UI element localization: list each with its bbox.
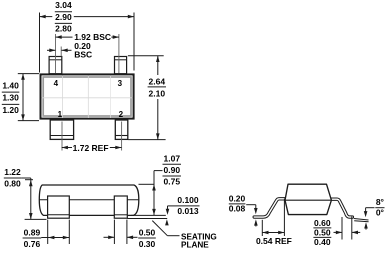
svg-text:8°: 8° <box>376 197 385 207</box>
dimension 0.60/0.50/0.40 foot length <box>341 217 343 240</box>
svg-text:0.90: 0.90 <box>164 165 181 175</box>
top view lead tab (pin 4 side) <box>49 57 62 74</box>
svg-text:0.08: 0.08 <box>229 204 246 214</box>
dimension 1.92 BSC lead pitch <box>56 36 73 38</box>
side view package body <box>39 185 139 215</box>
top view package body outline <box>41 74 134 118</box>
svg-text:2.90: 2.90 <box>55 12 72 22</box>
seating plane label <box>152 221 167 236</box>
svg-text:4: 4 <box>54 79 59 88</box>
svg-text:0.76: 0.76 <box>24 239 41 249</box>
top view lead tab (pin 3 side) <box>115 57 127 74</box>
svg-text:0.50: 0.50 <box>139 228 156 238</box>
svg-text:0.013: 0.013 <box>177 206 199 216</box>
dimension 0.89/0.76 wide lead width <box>47 220 49 244</box>
svg-text:1.72 REF: 1.72 REF <box>73 143 109 153</box>
svg-text:1: 1 <box>58 110 63 119</box>
svg-text:2.80: 2.80 <box>55 24 72 34</box>
svg-text:2: 2 <box>119 110 124 119</box>
dimension 0.50/0.30 lead width <box>113 220 115 244</box>
svg-text:1.20: 1.20 <box>2 105 19 115</box>
svg-text:0.30: 0.30 <box>139 239 156 249</box>
svg-text:1.30: 1.30 <box>2 93 19 103</box>
svg-text:0.75: 0.75 <box>164 176 181 186</box>
dimension 3.04/2.90/2.80 body width <box>39 13 41 73</box>
top view interior construction lines <box>42 97 133 99</box>
svg-text:0°: 0° <box>376 207 385 217</box>
side view lead tab right (pin 2) <box>114 196 127 218</box>
svg-text:0.80: 0.80 <box>4 178 21 188</box>
svg-text:1.22: 1.22 <box>4 167 21 177</box>
offset line 0.20 BSC ref <box>60 47 62 57</box>
top view lead tab (pin 1, wide) <box>50 120 73 139</box>
svg-text:3.04: 3.04 <box>55 0 72 10</box>
centerline pin1 tab ext <box>61 122 63 151</box>
svg-text:BSC: BSC <box>74 49 92 59</box>
dimension 0.20 BSC <box>47 49 56 51</box>
centerline pin2 tab ext <box>121 122 123 151</box>
centerline pin3 tab <box>118 34 120 73</box>
svg-text:1.07: 1.07 <box>164 153 181 163</box>
svg-text:3: 3 <box>118 79 123 88</box>
svg-text:2.64: 2.64 <box>149 77 166 87</box>
svg-text:0.89: 0.89 <box>24 228 41 238</box>
end view mold parting line <box>285 199 331 201</box>
side view mold parting line <box>39 199 138 201</box>
svg-text:2.10: 2.10 <box>149 88 166 98</box>
svg-text:0.50: 0.50 <box>314 227 331 237</box>
side view lead tab left (pin 1) <box>48 196 70 218</box>
top view lead tab (pin 2) <box>115 120 128 139</box>
end view package body <box>285 184 331 214</box>
svg-text:PLANE: PLANE <box>181 240 209 249</box>
svg-text:0.20: 0.20 <box>229 193 246 203</box>
seating plane lines <box>131 214 166 216</box>
svg-text:0.60: 0.60 <box>314 218 331 228</box>
end view left gull-wing lead <box>254 199 286 217</box>
dimension 1.72 REF <box>62 147 72 149</box>
svg-text:1.40: 1.40 <box>2 80 19 90</box>
dimension 2.64/2.10 overall length <box>128 55 164 57</box>
end view right gull-wing lead <box>329 199 352 217</box>
svg-text:0.54 REF: 0.54 REF <box>256 236 292 246</box>
centerline pin4 tab <box>55 34 57 73</box>
svg-text:0.40: 0.40 <box>314 237 331 247</box>
foot angle gauge lines <box>354 219 369 221</box>
svg-text:0.100: 0.100 <box>177 195 199 205</box>
dimension 0.54 REF <box>261 220 263 236</box>
